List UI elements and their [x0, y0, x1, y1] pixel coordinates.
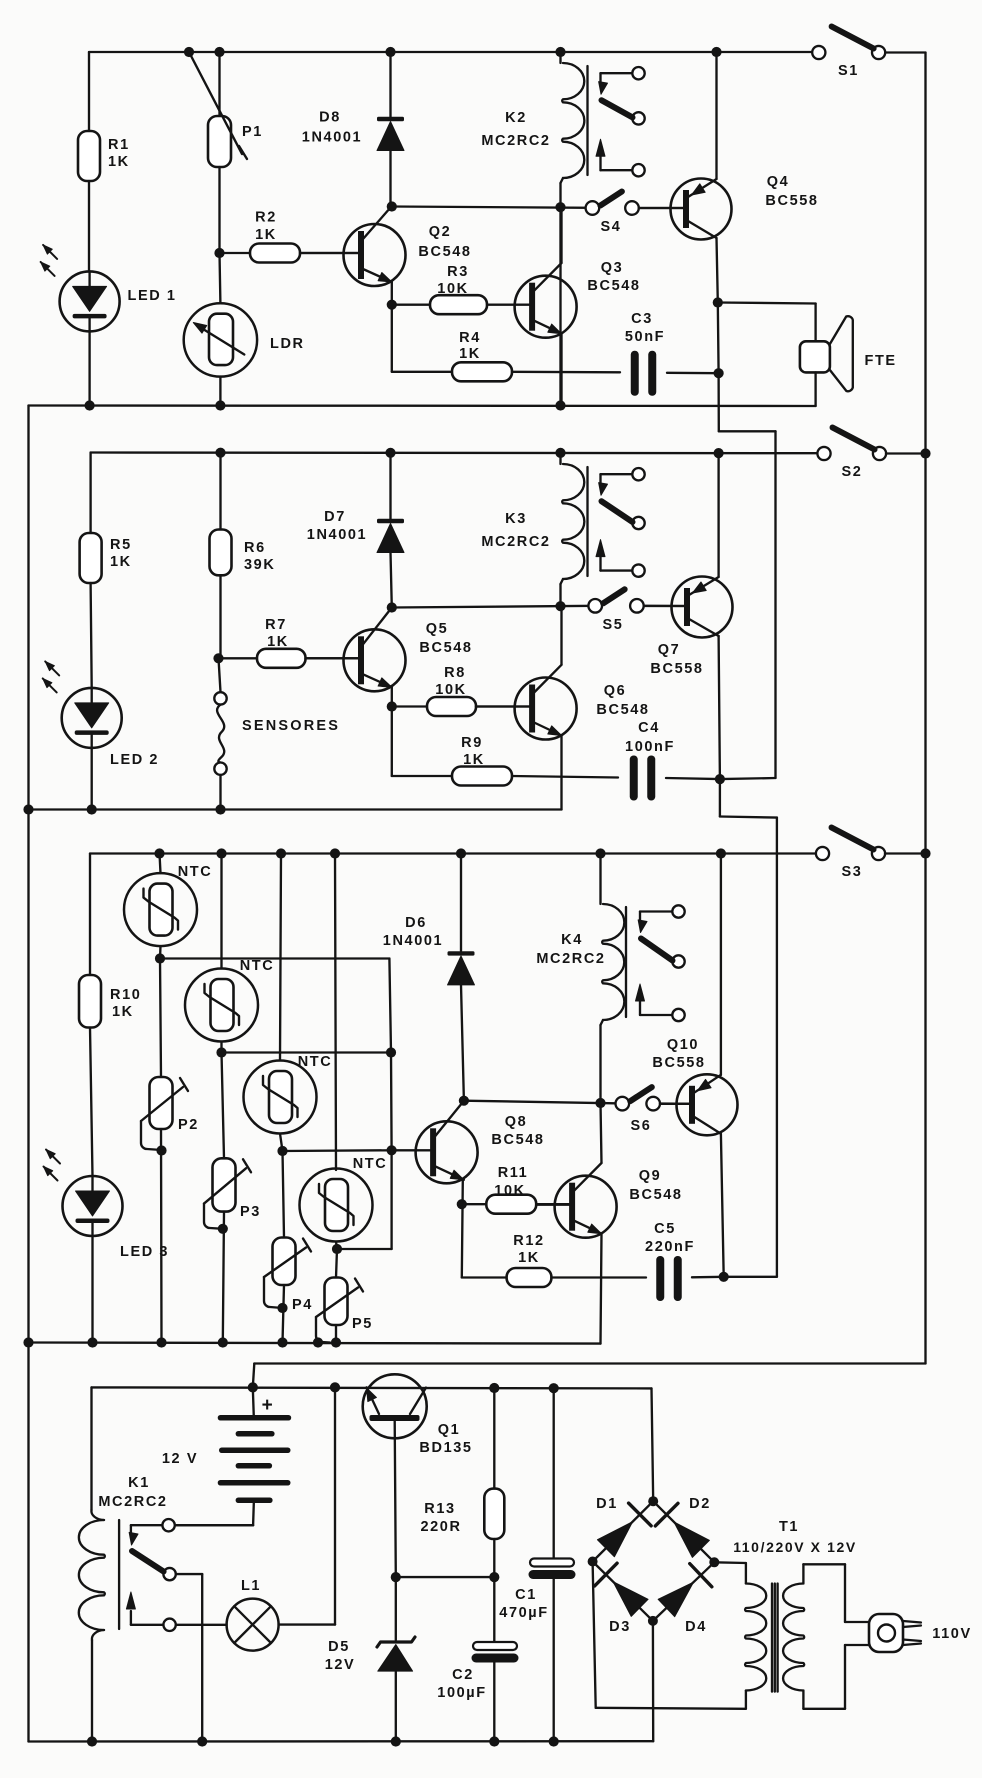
svg-text:110V: 110V: [932, 1626, 971, 1642]
svg-text:+: +: [262, 1395, 275, 1416]
wire: drive node to S4: [392, 207, 592, 208]
svg-text:470µF: 470µF: [499, 1605, 548, 1621]
node: right rail S2 dot: [920, 448, 930, 458]
resistor R10: [89, 854, 91, 976]
svg-text:1K: 1K: [110, 554, 132, 570]
capacitor C3: [631, 351, 639, 396]
wire: Q3 collector to S4 node: [560, 207, 562, 263]
svg-text:S3: S3: [842, 864, 863, 880]
node: chain dot at NTC2 level: [386, 1047, 396, 1057]
svg-text:R9: R9: [461, 735, 483, 751]
thermistor NTC2: [220, 854, 222, 969]
svg-text:R6: R6: [244, 540, 266, 556]
wire: left rail: [27, 406, 29, 1742]
svg-text:MC2RC2: MC2RC2: [481, 534, 550, 550]
svg-text:S4: S4: [601, 219, 622, 235]
node: rail1 junction dots: [184, 47, 194, 57]
wire: bridge AC left: [593, 1562, 596, 1708]
resistor R5: [89, 453, 91, 534]
svg-text:S1: S1: [838, 63, 859, 79]
svg-text:D1: D1: [596, 1496, 618, 1512]
svg-text:50nF: 50nF: [625, 329, 665, 345]
wire: P2 wiper hook: [141, 1121, 162, 1150]
potentiometer P3: [222, 1053, 225, 1159]
svg-text:1K: 1K: [112, 1004, 134, 1020]
svg-text:BC548: BC548: [419, 640, 472, 656]
node: K3 coil junction: [555, 601, 565, 611]
wire: bottom rail section 1: [29, 404, 816, 407]
wire: K1 common to ground: [176, 1573, 202, 1575]
wire: Q2 emitter column: [391, 282, 393, 372]
resistor R12: [462, 1276, 507, 1278]
transformer T1 primary: [802, 1564, 804, 1583]
wire: S6 to Q10 base: [660, 1102, 692, 1105]
LED LED1: [60, 271, 120, 331]
svg-text:K2: K2: [505, 110, 527, 126]
svg-text:P2: P2: [178, 1117, 199, 1133]
svg-text:12V: 12V: [325, 1657, 356, 1673]
svg-text:Q8: Q8: [505, 1114, 528, 1130]
wire: Q4 collector column: [717, 238, 718, 303]
transformer T1 secondary: [745, 1563, 747, 1584]
svg-text:1K: 1K: [255, 227, 277, 243]
svg-text:FTE: FTE: [865, 353, 897, 369]
svg-text:1N4001: 1N4001: [307, 527, 367, 543]
svg-text:C2: C2: [452, 1667, 474, 1683]
node: Q8 base node: [387, 1145, 397, 1155]
wire: P4 wiper hook: [264, 1277, 283, 1308]
svg-text:R1: R1: [108, 137, 130, 153]
svg-text:MC2RC2: MC2RC2: [481, 133, 550, 149]
node: right rail S3 dot: [920, 848, 930, 858]
node: rail1 bottom dots: [85, 400, 95, 410]
wire: drive node to S6: [464, 1101, 622, 1104]
svg-text:BC548: BC548: [491, 1132, 544, 1148]
relay K3 contacts: [632, 468, 644, 480]
wire: S1 to right rail: [885, 51, 925, 53]
transistor Q8: [416, 1121, 478, 1183]
svg-text:R4: R4: [459, 330, 481, 346]
svg-text:1K: 1K: [267, 634, 289, 650]
svg-text:R8: R8: [444, 665, 466, 681]
wire: S2 to right rail: [886, 452, 926, 454]
node: C5 output junction: [719, 1272, 729, 1282]
svg-text:Q2: Q2: [429, 224, 452, 240]
svg-text:K4: K4: [561, 932, 583, 948]
wire: NTC1 to chain: [160, 957, 389, 959]
wire: rail section 2 (top): [91, 451, 818, 454]
wire: tap to C3 junction: [717, 303, 720, 374]
wire: NTC4 to chain: [390, 1150, 392, 1249]
wire: Q4 emitter to rail: [715, 52, 717, 179]
wire: Q9 collector to S6 node: [601, 1103, 602, 1163]
svg-text:S6: S6: [631, 1118, 652, 1134]
wire: raw DC to bridge: [652, 1388, 654, 1501]
svg-text:L1: L1: [241, 1578, 261, 1594]
wire: LED1 to bottom rail: [88, 331, 90, 405]
node: NTC2 bottom junction: [216, 1047, 226, 1057]
transistor Q5: [344, 629, 406, 691]
wire: Q6 emitter to bottom rail: [560, 736, 562, 810]
svg-text:BC558: BC558: [652, 1055, 705, 1071]
wire: right rail vertical: [924, 53, 926, 1364]
svg-text:P1: P1: [242, 124, 263, 140]
node: K4 coil junction: [595, 1098, 605, 1108]
relay K2 contacts: [632, 67, 644, 79]
svg-text:BC548: BC548: [418, 244, 471, 260]
svg-text:Q9: Q9: [639, 1168, 662, 1184]
battery B1 12V: [253, 1387, 254, 1417]
svg-text:BD135: BD135: [419, 1440, 472, 1456]
svg-text:12 V: 12 V: [162, 1451, 198, 1467]
svg-text:R2: R2: [255, 210, 277, 226]
node: Q5 collector / D7 node: [387, 602, 397, 612]
potentiometer P5: [336, 1249, 337, 1278]
switch S5: [588, 599, 602, 613]
LED LED3: [63, 1176, 123, 1236]
node: R8 junction: [387, 701, 397, 711]
node: bridge vertex dots: [648, 1496, 658, 1506]
node: NTC3 bottom junction: [277, 1146, 287, 1156]
capacitor C5: [656, 1256, 664, 1301]
svg-text:R7: R7: [265, 617, 287, 633]
svg-text:1K: 1K: [108, 154, 130, 170]
wire: NTC3 to Q8 base node: [283, 1149, 392, 1152]
switch S4: [586, 201, 600, 215]
wire: Q6 collector to S5 node: [560, 606, 562, 665]
wire: P1 to R2/LDR junction: [218, 167, 220, 253]
resistor R7: [219, 657, 258, 659]
lamp L1: [227, 1599, 279, 1651]
svg-text:D4: D4: [685, 1619, 707, 1635]
svg-text:P5: P5: [352, 1316, 373, 1332]
node: K2 column bottom: [555, 400, 565, 410]
wire: +12V rail section 1 (top): [89, 51, 813, 53]
wire: S5 to Q7 base: [644, 605, 687, 608]
node: P5 rail dots: [313, 1337, 323, 1347]
diode D8: [389, 52, 391, 117]
relay K4 coil: [599, 854, 601, 905]
diode D1: [593, 1501, 654, 1561]
svg-text:10K: 10K: [435, 682, 466, 698]
wire: LDR to bottom rail: [219, 377, 221, 406]
switch S6: [616, 1097, 630, 1111]
relay K3 coil: [559, 453, 561, 464]
wire: +12V node line: [92, 1387, 652, 1388]
node: C4 output junction: [715, 774, 725, 784]
resistor R6: [219, 453, 221, 530]
wire: Q10 collector column: [721, 1134, 724, 1277]
mains plug: [869, 1614, 903, 1652]
node: P4 hook junction: [277, 1303, 287, 1313]
wire: Q8 emitter column: [462, 1180, 463, 1278]
relay K1 contacts: [162, 1519, 174, 1531]
wire: +12V distribution from right rail: [254, 1362, 925, 1364]
svg-text:P4: P4: [292, 1297, 313, 1313]
resistor R1: [88, 52, 90, 131]
speaker FTE: [718, 303, 816, 304]
svg-text:MC2RC2: MC2RC2: [536, 951, 605, 967]
transistor Q3: [515, 276, 577, 338]
capacitor C2: [493, 1577, 495, 1642]
thermistor NTC1: [160, 854, 161, 874]
svg-text:D7: D7: [324, 509, 346, 525]
svg-text:C3: C3: [631, 311, 653, 327]
wire: K2 column to rail: [559, 207, 561, 405]
transistor Q7: [672, 577, 733, 638]
transistor Q2: [344, 224, 406, 286]
wire: bottom rail section 2: [29, 808, 562, 810]
node: Q8 collector / D6 node: [459, 1096, 469, 1106]
capacitor C1: [553, 1388, 555, 1558]
resistor R3: [392, 304, 430, 306]
wire: primary bottom lead: [803, 1708, 845, 1710]
svg-text:D8: D8: [319, 110, 341, 126]
svg-text:100nF: 100nF: [625, 739, 675, 755]
transistor Q10: [677, 1074, 738, 1135]
svg-text:10K: 10K: [494, 1183, 525, 1199]
svg-text:100µF: 100µF: [437, 1685, 486, 1701]
svg-text:BC558: BC558: [765, 193, 818, 209]
svg-text:Q6: Q6: [604, 683, 627, 699]
node: +12V node dots: [248, 1382, 258, 1392]
resistor R11: [462, 1203, 487, 1205]
wire: P2 column to rail: [160, 1129, 163, 1343]
wire: LED3 to bottom rail: [91, 1236, 93, 1343]
wire: Q7 collector column: [719, 636, 720, 779]
node: rail3 junction dots: [154, 848, 164, 858]
svg-text:P3: P3: [240, 1204, 261, 1220]
wire: chain vertical: [390, 1053, 393, 1151]
transistor Q6: [515, 678, 577, 740]
resistor R4: [392, 371, 452, 373]
node: Q2 collector / D8 node: [387, 201, 397, 211]
diode D3: [593, 1562, 653, 1621]
svg-text:R5: R5: [110, 537, 132, 553]
wire: bridge minus to rail: [652, 1621, 655, 1741]
node: R3 junction: [387, 300, 397, 310]
wire: P5 column to rail: [335, 1325, 337, 1343]
svg-text:Q3: Q3: [601, 260, 624, 276]
node: NTC1 bottom junction: [155, 953, 165, 963]
svg-text:D5: D5: [328, 1639, 350, 1655]
svg-text:1N4001: 1N4001: [383, 933, 443, 949]
svg-text:220R: 220R: [420, 1519, 461, 1535]
wire: P4 column to rail: [283, 1285, 285, 1343]
wire: P5 wiper hook: [316, 1317, 330, 1343]
wire: LED2 to bottom rail: [91, 748, 93, 810]
svg-text:NTC: NTC: [178, 864, 213, 880]
node: K2 coil junction: [555, 202, 565, 212]
wire: osc link sec2-sec3: [719, 779, 721, 816]
node: speaker tap: [713, 297, 723, 307]
thermistor NTC3: [280, 854, 281, 1061]
wire: lamp to +12V node: [279, 1623, 335, 1625]
potentiometer P2: [160, 959, 161, 1078]
wire: bottom rail section 3: [29, 1343, 601, 1344]
svg-text:110/220V X 12V: 110/220V X 12V: [733, 1539, 857, 1555]
transformer T1 core: [771, 1584, 773, 1692]
diode D4: [653, 1562, 714, 1621]
wire: osc link sec1-sec2: [717, 373, 720, 431]
svg-text:Q10: Q10: [667, 1037, 699, 1053]
transistor Q1: [363, 1374, 427, 1438]
svg-text:D2: D2: [689, 1496, 711, 1512]
wire: P3 column to rail: [223, 1212, 224, 1343]
relay K2 coil: [559, 52, 561, 63]
svg-text:D6: D6: [405, 915, 427, 931]
svg-text:10K: 10K: [437, 281, 468, 297]
svg-text:MC2RC2: MC2RC2: [98, 1494, 167, 1510]
thermistor NTC4: [335, 854, 336, 1171]
svg-text:Q4: Q4: [767, 174, 790, 190]
transistor Q9: [555, 1176, 617, 1238]
svg-text:BC548: BC548: [629, 1187, 682, 1203]
relay K4 contacts: [672, 905, 684, 917]
svg-text:220nF: 220nF: [645, 1239, 695, 1255]
svg-text:1N4001: 1N4001: [302, 130, 362, 146]
svg-text:BC548: BC548: [596, 702, 649, 718]
svg-text:NTC: NTC: [353, 1156, 388, 1172]
svg-text:BC558: BC558: [650, 661, 703, 677]
resistor R9: [392, 775, 452, 777]
svg-text:NTC: NTC: [298, 1054, 333, 1070]
svg-text:Q7: Q7: [658, 642, 681, 658]
svg-text:LED 1: LED 1: [128, 288, 177, 304]
switch S3: [816, 847, 829, 860]
capacitor C4: [630, 756, 638, 801]
relay K1 coil: [90, 1387, 92, 1510]
resistor R8: [392, 705, 427, 707]
svg-text:SENSORES: SENSORES: [242, 718, 340, 734]
resistor R2: [220, 252, 251, 254]
node: C3 output junction: [714, 368, 724, 378]
wire: Q3 emitter to bottom rail: [560, 334, 562, 406]
svg-text:T1: T1: [779, 1519, 799, 1535]
diode D7: [389, 453, 391, 519]
wire: primary top lead: [803, 1563, 845, 1565]
svg-text:R12: R12: [513, 1233, 544, 1249]
wire: NTC2 to chain: [222, 1051, 392, 1053]
svg-text:1K: 1K: [518, 1250, 540, 1266]
wire: P3 wiper hook: [204, 1204, 223, 1229]
wire: rail section 3 (top): [90, 852, 816, 854]
diode D6: [460, 854, 462, 952]
svg-text:R11: R11: [498, 1165, 529, 1181]
svg-text:S5: S5: [603, 617, 624, 633]
node: bottom rail dots: [87, 1736, 97, 1746]
svg-text:D3: D3: [609, 1619, 631, 1635]
svg-text:C4: C4: [638, 720, 660, 736]
wire: S4 to Q4 base: [639, 207, 686, 209]
wire: base node line: [396, 1576, 495, 1578]
node: R7 junction: [213, 653, 223, 663]
svg-text:K1: K1: [128, 1475, 150, 1491]
node: base node dots: [391, 1572, 401, 1582]
svg-text:LDR: LDR: [270, 336, 305, 352]
svg-text:R3: R3: [447, 264, 469, 280]
svg-text:Q5: Q5: [426, 621, 449, 637]
svg-text:K3: K3: [505, 511, 527, 527]
svg-text:R10: R10: [110, 987, 141, 1003]
zener diode D5: [395, 1577, 397, 1640]
transistor Q4: [671, 179, 732, 240]
node: rail2 junction dots: [215, 448, 225, 458]
node: R2 junction: [214, 248, 224, 258]
wire: K1 NO to battery minus: [175, 1524, 253, 1526]
node: NTC4 bottom junction: [332, 1244, 342, 1254]
svg-text:Q1: Q1: [438, 1422, 461, 1438]
svg-text:S2: S2: [842, 464, 863, 480]
svg-text:R13: R13: [424, 1501, 455, 1517]
wire: bottom rail PSU: [29, 1740, 654, 1743]
wire: S3 to right rail: [885, 852, 926, 854]
wire: drive node to S5: [392, 606, 595, 608]
node: P3 hook junction: [218, 1224, 228, 1234]
resistor R13: [493, 1388, 495, 1489]
wire: bridge AC right: [714, 1561, 746, 1564]
sensor loop SENSORES: [219, 658, 221, 692]
diode D2: [653, 1501, 714, 1562]
svg-text:LED 2: LED 2: [110, 752, 159, 768]
wire: Q7 emitter to rail: [717, 453, 719, 577]
potentiometer P4: [283, 1151, 285, 1238]
wire: Q10 emitter to rail: [720, 854, 722, 1076]
wire: Q9 emitter to rail corner: [601, 1234, 602, 1344]
node: rail2 bottom dots: [23, 804, 33, 814]
svg-text:39K: 39K: [244, 557, 275, 573]
wire: K1 NC to lamp: [176, 1624, 227, 1626]
switch S2: [817, 447, 830, 460]
svg-text:BC548: BC548: [587, 278, 640, 294]
LED LED2: [62, 688, 122, 748]
potentiometer P1: [218, 52, 220, 116]
svg-text:1K: 1K: [463, 752, 485, 768]
LDR LDR1: [218, 253, 221, 303]
svg-text:C1: C1: [515, 1587, 537, 1603]
switch S1: [812, 46, 825, 59]
wire: Q5 emitter column: [391, 687, 393, 776]
node: R11 junction: [457, 1199, 467, 1209]
svg-text:C5: C5: [654, 1221, 676, 1237]
node: P2 hook junction: [156, 1145, 166, 1155]
svg-text:NTC: NTC: [240, 958, 275, 974]
node: rail3 bottom dots: [23, 1337, 33, 1347]
svg-text:1K: 1K: [459, 346, 481, 362]
